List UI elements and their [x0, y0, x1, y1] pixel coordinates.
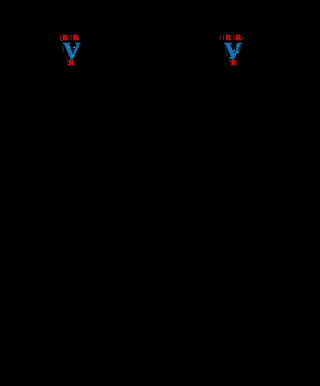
- svg-text:R: R: [69, 58, 75, 67]
- svg-text:R: R: [231, 58, 237, 67]
- svg-text:R: R: [226, 33, 232, 42]
- svg-text:R: R: [63, 33, 69, 42]
- svg-text:R: R: [73, 33, 79, 42]
- svg-text:R: R: [236, 33, 242, 42]
